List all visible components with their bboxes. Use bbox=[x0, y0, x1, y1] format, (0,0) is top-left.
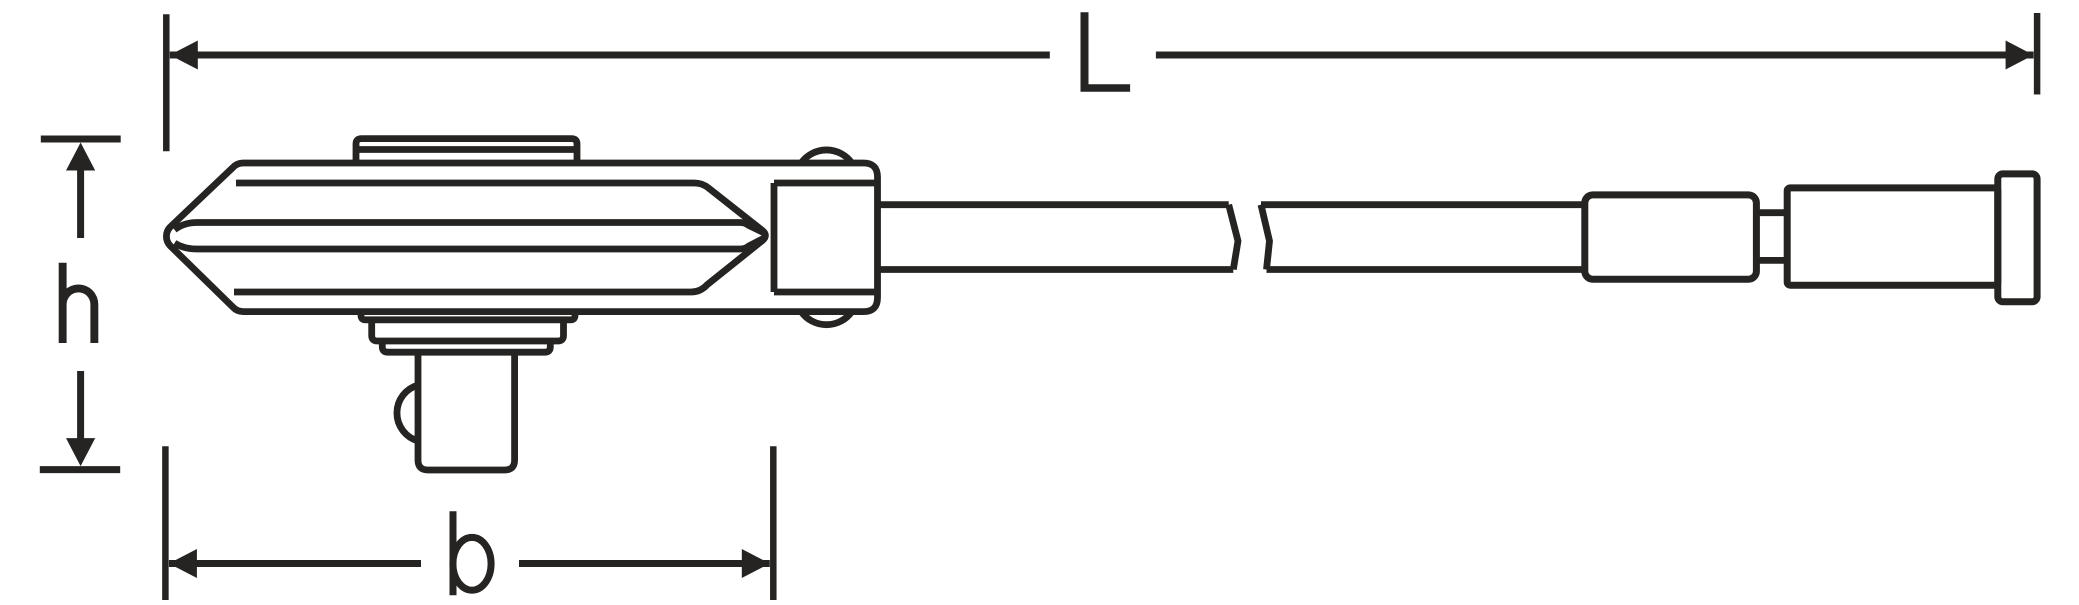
shaft right piece top bbox=[1261, 201, 1585, 208]
dimension h arrowhead down bbox=[66, 438, 95, 466]
shaft right piece bottom bbox=[1267, 266, 1585, 273]
pivot pin arc bottom bbox=[801, 312, 852, 325]
dimension L arrowhead right bbox=[2006, 41, 2034, 70]
ratchet box top line bbox=[774, 180, 875, 187]
ratchet box bottom line bbox=[774, 289, 875, 296]
dimension b extension line right bbox=[770, 446, 777, 600]
shaft left piece bottom bbox=[878, 266, 1234, 273]
shaft left piece top bbox=[878, 201, 1229, 208]
detent ball arc bbox=[397, 385, 418, 441]
flange tier 1 bbox=[361, 312, 575, 320]
end cap bbox=[1998, 174, 2037, 302]
dimension h bottom tick bbox=[40, 466, 120, 473]
release button plate top bbox=[356, 139, 577, 163]
flange tier 2 bbox=[372, 320, 564, 341]
dimension b line left segment bbox=[169, 560, 421, 567]
dimension b extension line left bbox=[162, 446, 169, 600]
sleeve box bbox=[1585, 195, 1757, 279]
dimension L line right segment bbox=[1156, 52, 2034, 59]
label h bbox=[59, 263, 99, 343]
pivot pin arc top bbox=[801, 150, 852, 163]
dimension b line right segment bbox=[519, 560, 770, 567]
ratchet box left edge bbox=[771, 183, 778, 292]
dimension L arrowhead left bbox=[170, 41, 198, 70]
release button plate inner line bbox=[356, 146, 577, 153]
dimension L extension line right bbox=[2034, 13, 2041, 95]
dimension b arrowhead left bbox=[169, 549, 197, 578]
label b bbox=[450, 511, 457, 595]
neck top line bbox=[1756, 209, 1787, 216]
dimension L line left segment bbox=[170, 52, 1050, 59]
blade mid line upper bbox=[175, 223, 764, 233]
neck bottom line bbox=[1756, 257, 1787, 264]
dimension h arrowhead up bbox=[66, 143, 95, 171]
wrench head outer housing bbox=[166, 163, 877, 312]
flange tier 3 bbox=[382, 341, 550, 352]
grip box bbox=[1787, 188, 1998, 285]
wrench head inner blade outline bbox=[234, 183, 765, 292]
dimension b arrowhead right bbox=[742, 549, 770, 578]
dimension h top tick bbox=[41, 136, 121, 143]
dimension L extension line left bbox=[163, 14, 170, 151]
dimension h arrow shaft lower bbox=[77, 371, 84, 441]
square drive peg bbox=[418, 352, 515, 470]
shaft break edge right bbox=[1261, 205, 1270, 270]
dimension h arrow shaft upper bbox=[77, 167, 84, 238]
shaft break edge left bbox=[1229, 205, 1238, 270]
blade mid line lower bbox=[175, 238, 764, 249]
label L bbox=[1081, 12, 1131, 91]
